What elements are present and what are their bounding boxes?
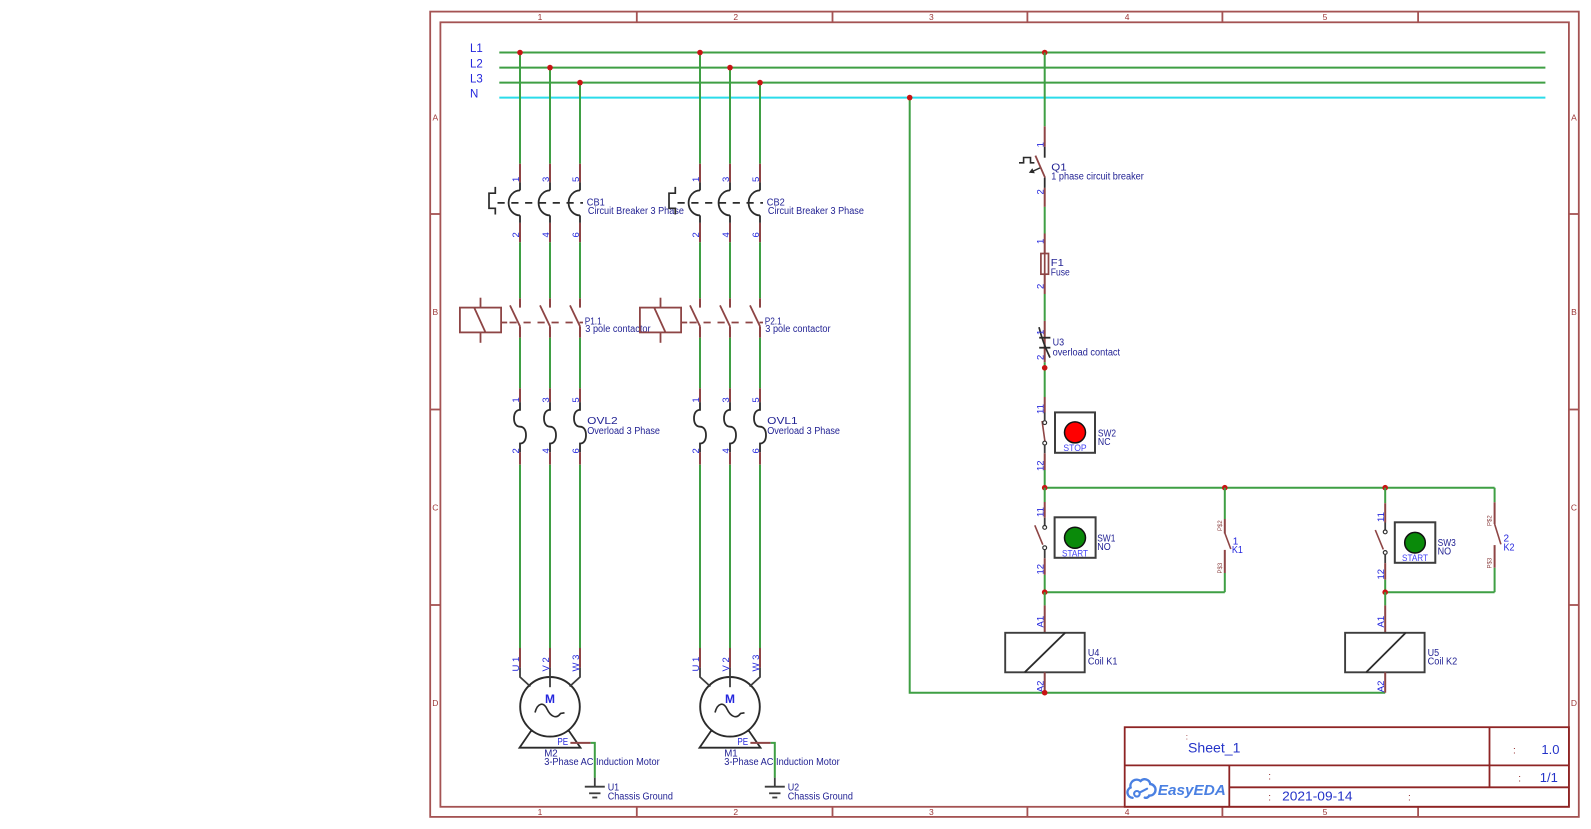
svg-text:1: 1 (691, 177, 702, 182)
relay contact K2 (1495, 488, 1501, 593)
svg-text:K2: K2 (1504, 542, 1515, 553)
title block (1125, 727, 1569, 807)
svg-text:1: 1 (1036, 142, 1047, 147)
wire L1 to Q1 pin 1 (1044, 53, 1046, 127)
junction coil U5 node (1382, 589, 1388, 595)
svg-text:Chassis Ground: Chassis Ground (788, 792, 853, 803)
motor M2 (520, 648, 581, 748)
net label L3 (470, 73, 483, 85)
svg-text:3: 3 (541, 397, 552, 402)
wire PE of M2 to U1 (591, 743, 595, 778)
junction on L3 at x=760 (757, 80, 763, 86)
svg-text:6: 6 (571, 232, 582, 237)
svg-text:1.0: 1.0 (1541, 742, 1559, 757)
relay contact K1 (1225, 488, 1231, 593)
net label L2 (470, 58, 483, 70)
svg-text:N: N (470, 88, 478, 100)
revision 1.0 (1513, 742, 1559, 757)
pin numbers CB1 2,4,6 (511, 232, 582, 237)
svg-text:11: 11 (1376, 512, 1387, 522)
3 pole contactor P2.1 (640, 298, 763, 343)
pin numbers F1 (1036, 239, 1047, 289)
label M1 (724, 748, 840, 768)
pin numbers OVL1 1,3,5 (691, 397, 762, 402)
sheet title Sheet_1 (1186, 732, 1241, 755)
pin numbers CB1 1,3,5 (511, 177, 582, 182)
wire SW3 pin 12 to junction (1384, 580, 1386, 593)
pin numbers OVL2 1,3,5 (511, 397, 582, 402)
svg-text:4: 4 (541, 448, 552, 453)
svg-text:B: B (432, 307, 438, 317)
svg-text:3: 3 (541, 177, 552, 182)
wire junction row to K2 branch (1045, 487, 1495, 489)
junction K1 branch top (1222, 485, 1228, 491)
svg-text:V 2: V 2 (721, 657, 732, 671)
svg-text:6: 6 (571, 448, 582, 453)
wire OVL1 pin 6 to M1 (759, 465, 761, 648)
label SW2 (1098, 428, 1117, 448)
coil U4 (1005, 605, 1084, 692)
svg-text:V 2: V 2 (541, 657, 552, 671)
svg-text:6: 6 (751, 448, 762, 453)
svg-text:L3: L3 (470, 73, 483, 85)
label K2 (1504, 534, 1515, 554)
svg-text:U 1: U 1 (511, 657, 522, 672)
svg-text::: : (1518, 773, 1521, 784)
svg-text:W 3: W 3 (751, 655, 762, 672)
pin names U4 A1 A2 (1036, 616, 1047, 692)
pin numbers SW3 (1376, 512, 1387, 579)
svg-text:4: 4 (1125, 807, 1130, 817)
svg-text:Coil K1: Coil K1 (1088, 657, 1118, 668)
svg-text:5: 5 (1323, 807, 1328, 817)
svg-text:6: 6 (751, 232, 762, 237)
svg-text:5: 5 (571, 177, 582, 182)
svg-text:L2: L2 (470, 58, 483, 70)
wire junction to SW3 pin 11 (1384, 488, 1386, 504)
wire L2 to CB1 pin 3 (549, 68, 551, 164)
wire P2.1 to OVL1 pin 1 (699, 338, 701, 388)
svg-text:12: 12 (1376, 569, 1387, 580)
svg-text:B: B (1571, 307, 1577, 317)
svg-text::: : (1408, 792, 1411, 803)
junction on L1 for control circuit (1042, 50, 1048, 56)
svg-text:L1: L1 (470, 43, 483, 55)
svg-text:1: 1 (538, 12, 543, 22)
label U5 (1428, 648, 1458, 668)
pin labels M1 U V W (691, 655, 762, 672)
wire L3 to CB2 pin 5 (759, 83, 761, 164)
wire P2.1 to OVL1 pin 5 (759, 338, 761, 388)
junction below U3 (1042, 365, 1048, 371)
date 2021-09-14 (1268, 789, 1411, 803)
wire P2.1 to OVL1 pin 3 (729, 338, 731, 388)
svg-text:Overload 3 Phase: Overload 3 Phase (587, 426, 660, 437)
wire PE of M1 to U2 (771, 743, 775, 778)
svg-text:4: 4 (721, 232, 732, 237)
svg-text:1: 1 (538, 807, 543, 817)
svg-text:PE: PE (737, 737, 748, 748)
overload contact U3 (1039, 321, 1050, 362)
label SW1 (1097, 533, 1116, 553)
svg-text:2021-09-14: 2021-09-14 (1282, 789, 1352, 803)
label U4 (1088, 648, 1118, 668)
svg-text:D: D (1571, 698, 1577, 708)
wire L2 to CB2 pin 3 (729, 68, 731, 164)
svg-text::: : (1268, 772, 1271, 783)
svg-text:2: 2 (1036, 355, 1047, 360)
label U2 (788, 782, 853, 802)
3 pole contactor P1.1 (460, 298, 583, 343)
start button SW1 (NO) (1035, 502, 1096, 575)
junction on N rail (907, 95, 913, 101)
svg-text:5: 5 (1323, 12, 1328, 22)
wire P1.1 to OVL2 pin 1 (519, 338, 521, 388)
chassis ground U1 (585, 778, 605, 798)
svg-text:A: A (1571, 113, 1577, 123)
svg-text:P$2: P$2 (1488, 515, 1494, 526)
circuit breaker CB2 (669, 164, 763, 243)
wire OVL1 pin 4 to M1 (729, 465, 731, 648)
wire CB2 pin 4 to P2.1 (729, 242, 731, 298)
junction on L2 at x=550 (547, 65, 553, 71)
svg-text:START: START (1402, 553, 1428, 564)
svg-text:1: 1 (1036, 330, 1047, 335)
pin PE of M1 (737, 737, 770, 748)
junction SW3 branch top (1382, 485, 1388, 491)
junction SW2/SW1 node (1042, 485, 1048, 491)
svg-text:12: 12 (1036, 460, 1047, 471)
svg-text:STOP: STOP (1063, 443, 1086, 454)
svg-text:3: 3 (929, 807, 934, 817)
svg-text:NO: NO (1438, 547, 1452, 558)
svg-text:1/1: 1/1 (1540, 770, 1558, 785)
pin names K1 P$2 P$3 (1218, 520, 1224, 574)
svg-text:P$3: P$3 (1488, 557, 1494, 568)
svg-text:4: 4 (541, 232, 552, 237)
wire OVL2 pin 2 to M2 (519, 465, 521, 648)
svg-text:2: 2 (511, 448, 522, 453)
pin numbers SW1 (1036, 507, 1047, 574)
svg-text:1 phase circuit breaker: 1 phase circuit breaker (1051, 171, 1144, 182)
junction on L3 at x=580 (577, 80, 583, 86)
label U1 (608, 782, 673, 802)
wire OVL1 pin 2 to M1 (699, 465, 701, 648)
svg-text:Fuse: Fuse (1051, 268, 1070, 279)
motor M1 (700, 648, 761, 748)
svg-text:K1: K1 (1232, 545, 1243, 556)
wire Q1 pin 2 to F1 pin 1 (1044, 207, 1046, 234)
neutral rail N (499, 97, 1545, 99)
svg-text:2: 2 (1036, 189, 1047, 194)
wire N to coil return line (910, 98, 1385, 693)
svg-text:2: 2 (1036, 284, 1047, 289)
svg-text:Chassis Ground: Chassis Ground (608, 792, 673, 803)
wire CB1 pin 6 to P1.1 (579, 242, 581, 298)
pin numbers SW2 (1036, 404, 1047, 471)
junction on L2 at x=730 (727, 65, 733, 71)
label M2 (544, 748, 660, 768)
pin numbers CB2 2,4,6 (691, 232, 762, 237)
wire junction row 2 (K1 to coil node) (1045, 591, 1225, 593)
svg-text:NO: NO (1097, 542, 1111, 553)
label OVL2 (587, 416, 660, 437)
svg-text:START: START (1062, 548, 1088, 559)
svg-text:A1: A1 (1036, 616, 1047, 628)
svg-text:11: 11 (1036, 507, 1047, 517)
svg-text:4: 4 (1125, 12, 1130, 22)
svg-text:C: C (432, 503, 438, 513)
svg-text:1: 1 (691, 397, 702, 402)
svg-text:1: 1 (511, 397, 522, 402)
svg-text:2: 2 (691, 232, 702, 237)
pin numbers CB2 1,3,5 (691, 177, 762, 182)
overload OVL1 (694, 388, 766, 465)
wire CB2 pin 6 to P2.1 (759, 242, 761, 298)
wire SW1 pin 12 to junction row 2 (1044, 575, 1046, 592)
svg-text::: : (1268, 792, 1271, 803)
label Q1 (1051, 162, 1144, 182)
svg-text:3: 3 (721, 177, 732, 182)
wire P1.1 to OVL2 pin 5 (579, 338, 581, 388)
junction on L1 at x=700 (697, 50, 703, 56)
pin numbers OVL1 2,4,6 (691, 448, 762, 453)
pin numbers OVL2 2,4,6 (511, 448, 582, 453)
svg-text:EasyEDA: EasyEDA (1158, 782, 1226, 799)
pin names K2 P$2 P$3 (1488, 515, 1494, 569)
svg-text:5: 5 (571, 397, 582, 402)
svg-text:5: 5 (751, 177, 762, 182)
label SW3 (1438, 538, 1457, 558)
svg-text:C: C (1571, 503, 1577, 513)
svg-text:3: 3 (721, 397, 732, 402)
svg-text:overload contact: overload contact (1053, 348, 1121, 359)
svg-text:12: 12 (1036, 564, 1047, 575)
pin PE of M2 (557, 737, 590, 748)
svg-text:2: 2 (511, 232, 522, 237)
label P2.1 (765, 317, 832, 335)
wire OVL2 pin 4 to M2 (549, 465, 551, 648)
wire junction to U4 pin A1 (1044, 592, 1046, 605)
EasyEDA logo (1127, 779, 1225, 799)
label K1 (1232, 536, 1243, 556)
svg-text:Circuit Breaker 3 Phase: Circuit Breaker 3 Phase (768, 206, 864, 217)
wire CB2 pin 2 to P2.1 (699, 242, 701, 298)
wire CB1 pin 4 to P1.1 (549, 242, 551, 298)
svg-text::: : (1513, 746, 1516, 757)
start button SW3 (NO) (1375, 503, 1435, 580)
wire CB1 pin 2 to P1.1 (519, 242, 521, 298)
wire SW2 pin 12 to junction (1044, 470, 1046, 488)
sheet number 1/1 (1268, 770, 1558, 785)
svg-text:3: 3 (929, 12, 934, 22)
wire OVL2 pin 6 to M2 (579, 465, 581, 648)
svg-text:11: 11 (1036, 404, 1047, 414)
svg-text:A2: A2 (1376, 681, 1387, 693)
svg-text:Overload 3 Phase: Overload 3 Phase (767, 426, 840, 437)
svg-text:1: 1 (1036, 239, 1047, 244)
svg-text:A: A (432, 113, 438, 123)
pin labels M2 U V W (511, 655, 582, 672)
pin names U5 A1 A2 (1376, 616, 1387, 692)
power rail L1 (499, 52, 1545, 54)
label CB1 (587, 197, 684, 217)
overload OVL2 (514, 388, 586, 465)
svg-text:NC: NC (1098, 437, 1111, 448)
wire junction to SW1 pin 11 (1044, 488, 1046, 502)
wire L3 to CB1 pin 5 (579, 83, 581, 164)
power rail L3 (499, 82, 1545, 84)
svg-text:U3: U3 (1053, 337, 1065, 348)
svg-text:2: 2 (733, 12, 738, 22)
label CB2 (767, 197, 864, 217)
svg-text:2: 2 (733, 807, 738, 817)
svg-text:1: 1 (511, 177, 522, 182)
wire L1 to CB1 pin 1 (519, 53, 521, 164)
svg-text:Sheet_1: Sheet_1 (1188, 739, 1241, 755)
label U3 (1053, 337, 1121, 358)
wire K2 bottom to SW3 node (1385, 591, 1494, 593)
svg-text:3 pole contactor: 3 pole contactor (765, 324, 831, 335)
svg-text:3-Phase AC Induction Motor: 3-Phase AC Induction Motor (724, 757, 840, 768)
svg-text:2: 2 (691, 448, 702, 453)
svg-text:PE: PE (557, 737, 568, 748)
svg-text:4: 4 (721, 448, 732, 453)
net label L1 (470, 43, 483, 55)
svg-text:D: D (432, 698, 438, 708)
svg-text:U 1: U 1 (691, 657, 702, 672)
svg-text:3-Phase AC Induction Motor: 3-Phase AC Induction Motor (544, 757, 660, 768)
svg-text:M: M (725, 692, 735, 706)
net label N (470, 88, 478, 100)
svg-text:5: 5 (751, 397, 762, 402)
wire F1 pin 2 to U3 pin 1 (1044, 294, 1046, 321)
wire U3 pin 2 to SW2 pin 11 (1044, 362, 1046, 397)
chassis ground U2 (765, 778, 785, 798)
junction U4 A2 on N return (1042, 690, 1048, 696)
label F1 (1051, 258, 1070, 279)
svg-text:W 3: W 3 (571, 655, 582, 672)
circuit breaker CB1 (489, 164, 583, 243)
fuse F1 (1041, 234, 1049, 295)
svg-text:M: M (545, 692, 555, 706)
pin numbers Q1 (1036, 142, 1047, 194)
svg-text:Coil K2: Coil K2 (1428, 657, 1458, 668)
label OVL1 (767, 416, 840, 437)
svg-text:P$3: P$3 (1218, 562, 1224, 573)
circuit breaker Q1 (1019, 126, 1045, 207)
svg-text:P$2: P$2 (1218, 520, 1224, 531)
junction coil U4 node (1042, 589, 1048, 595)
svg-text:A1: A1 (1376, 616, 1387, 628)
label P1.1 (585, 317, 652, 335)
wire junction to U5 pin A1 (1384, 592, 1386, 605)
stop button SW2 (NC) (1042, 397, 1095, 470)
wire L1 to CB2 pin 1 (699, 53, 701, 164)
wire P1.1 to OVL2 pin 3 (549, 338, 551, 388)
pin numbers U3 (1036, 330, 1047, 360)
coil U5 (1345, 605, 1425, 692)
power rail L2 (499, 67, 1545, 69)
junction on L1 at x=520 (517, 50, 523, 56)
